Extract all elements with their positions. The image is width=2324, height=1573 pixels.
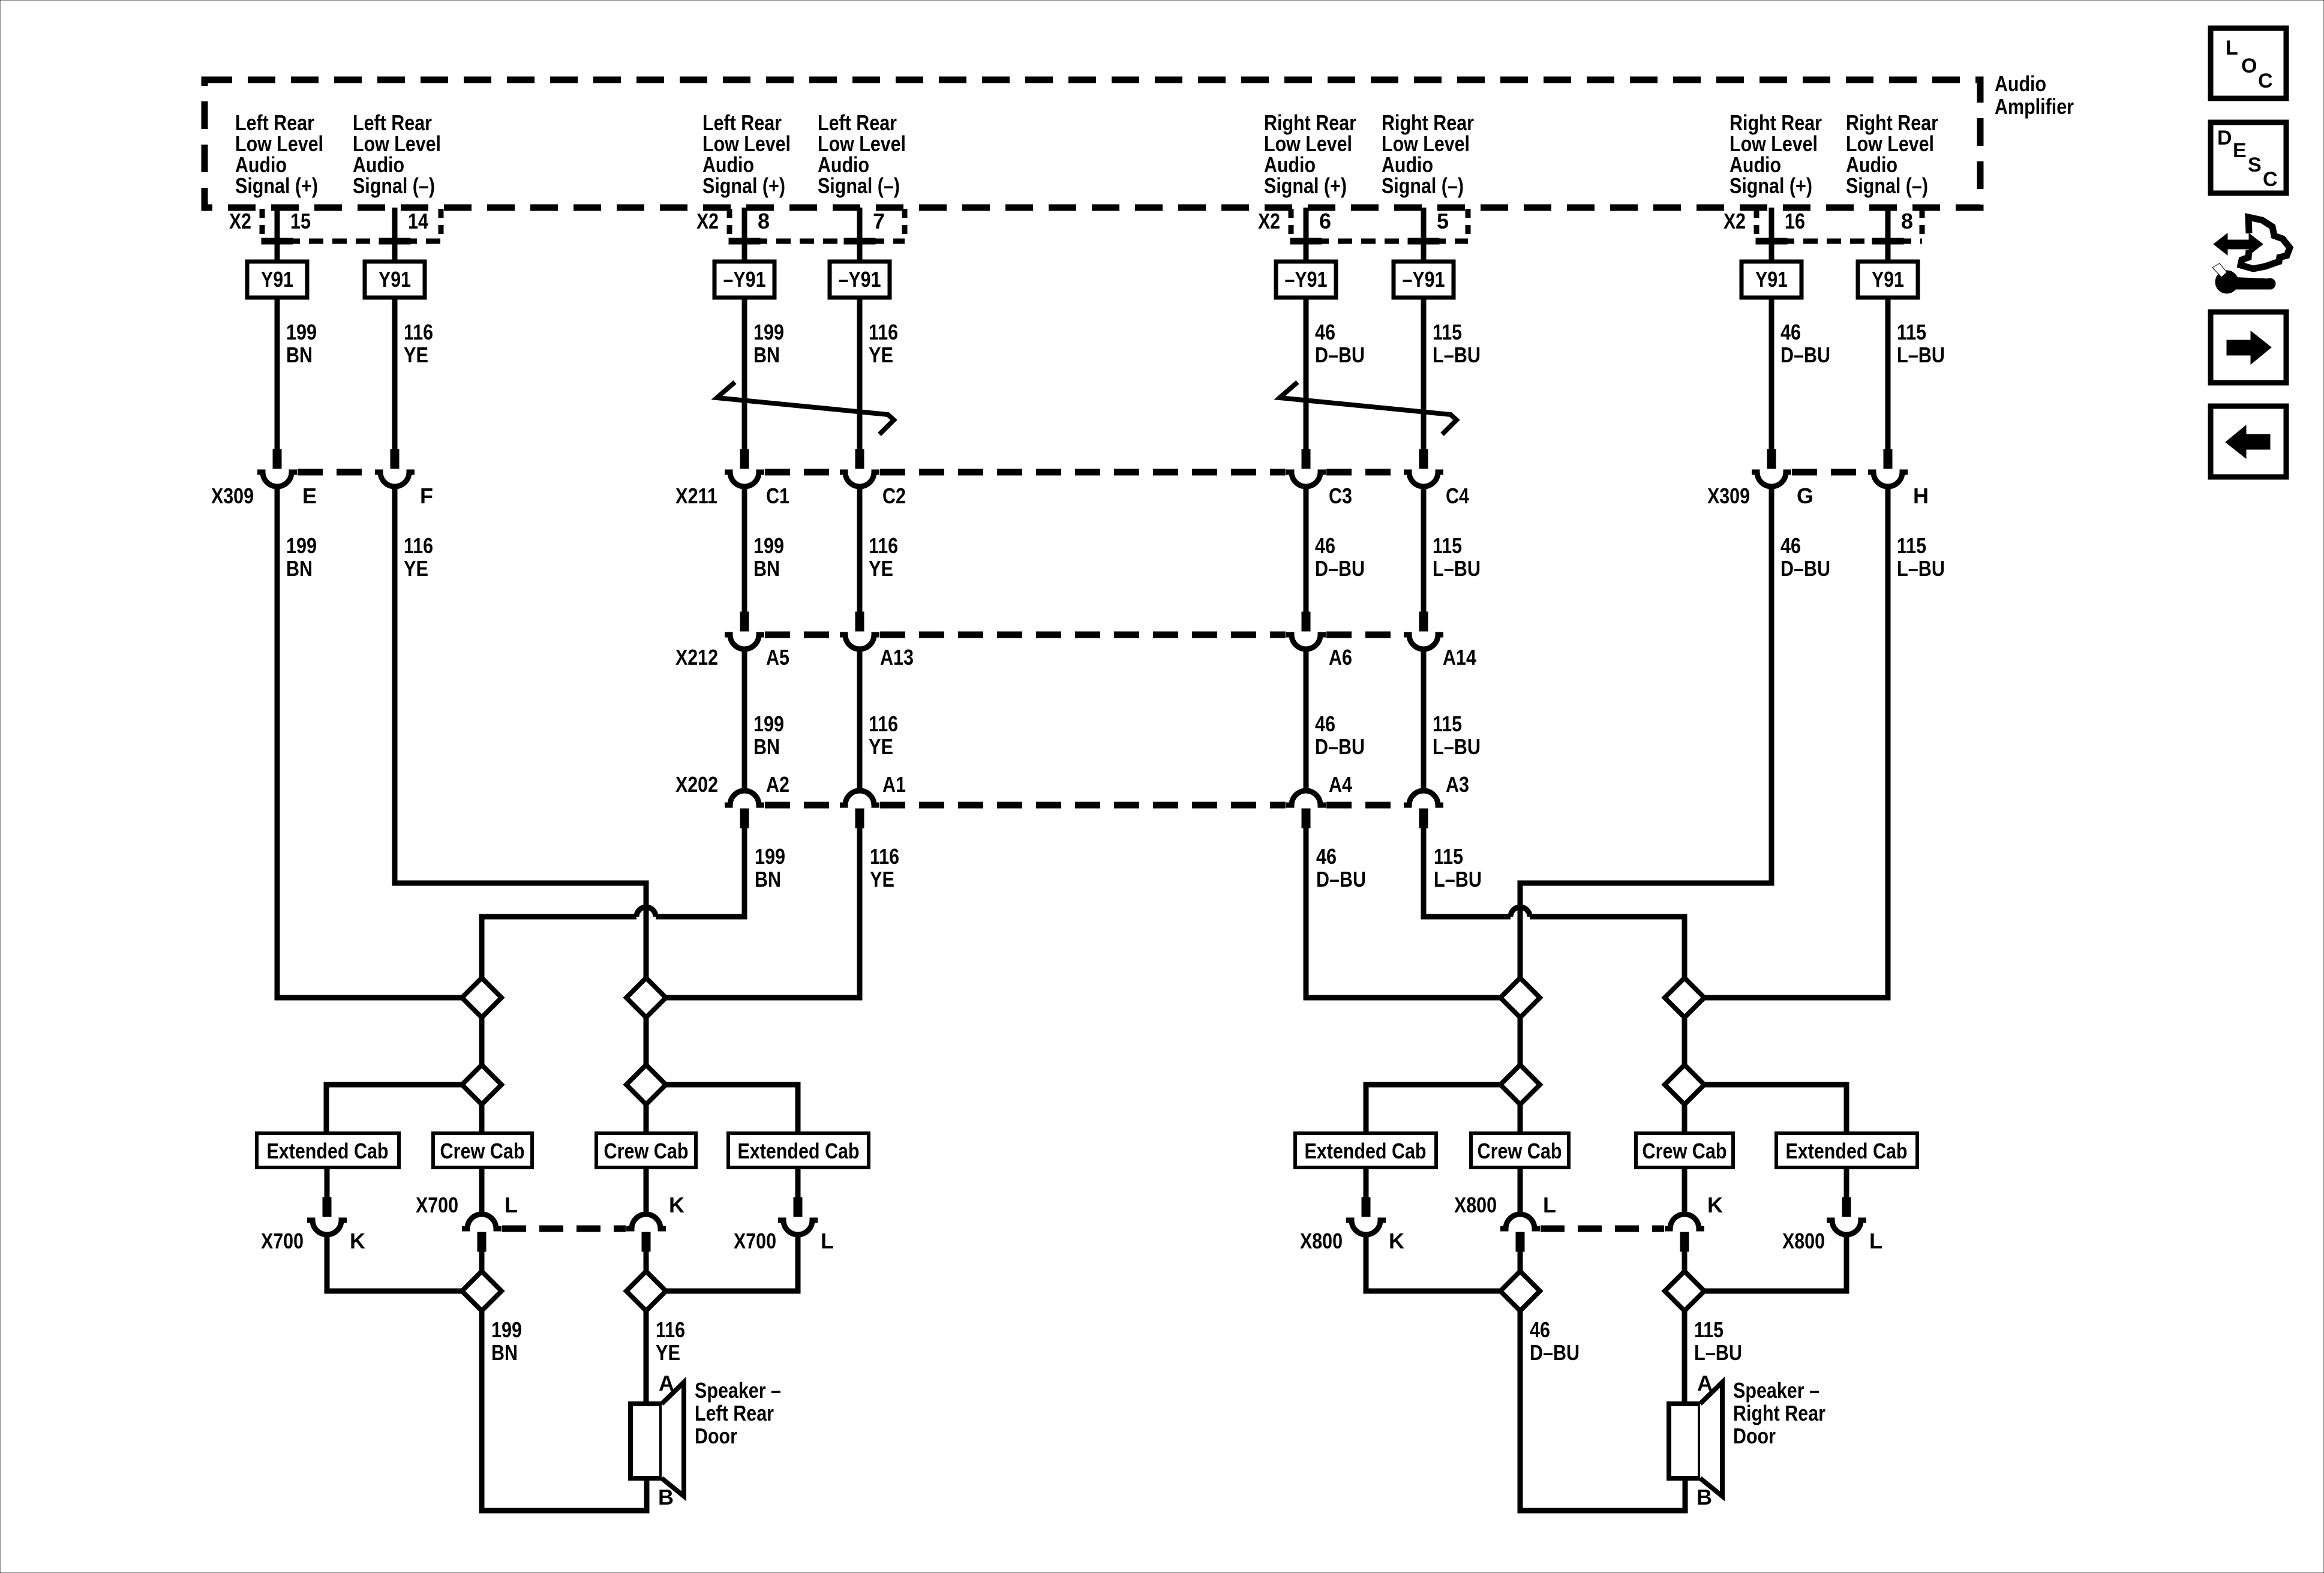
svg-text:A: A (659, 1371, 674, 1395)
svg-text:L: L (821, 1229, 834, 1253)
wire value label 199 BN (row 4, column 3) (755, 844, 785, 891)
svg-text:46: 46 (1780, 533, 1801, 558)
svg-text:7: 7 (873, 209, 885, 233)
svg-text:A5: A5 (766, 645, 789, 670)
svg-text:BN: BN (753, 343, 780, 367)
svg-text:Door: Door (1733, 1424, 1776, 1448)
svg-text:X700: X700 (416, 1193, 458, 1217)
svg-text:46: 46 (1530, 1317, 1550, 1342)
icon: DESC box (2211, 122, 2286, 193)
wire from Extended Cab down to X800 (outer-left) (1364, 1167, 1369, 1197)
connector X700 outer-right terminal (794, 1197, 802, 1217)
wire value label 115 L–BU (row 2, column 6) (1433, 533, 1481, 581)
wire from Crew Cab down to X800 (inner-right) (1682, 1167, 1688, 1214)
wire segment between row A and row B splices at x=803 (479, 1017, 485, 1065)
svg-text:199: 199 (755, 844, 785, 869)
dashed connector line X309 G-H (1792, 469, 1867, 476)
svg-text:BN: BN (753, 734, 780, 759)
wire value label 115 L–BU (row 1, column 6) (1433, 320, 1481, 367)
svg-text:199: 199 (286, 533, 317, 558)
wire segment column 6 between X211 and X212 (1421, 487, 1427, 612)
svg-text:X202: X202 (675, 772, 718, 797)
wire segment below Y91 (1769, 298, 1774, 449)
svg-text:–Y91: –Y91 (839, 267, 881, 292)
svg-text:YE: YE (869, 343, 893, 367)
wire value label 46 D–BU (row 3, column 5) (1315, 712, 1365, 759)
svg-text:K: K (1389, 1229, 1404, 1253)
svg-text:L–BU: L–BU (1433, 734, 1481, 759)
wire from X700 inner-right pin to row-C splice (644, 1251, 649, 1271)
svg-text:D–BU: D–BU (1315, 556, 1365, 581)
svg-text:Door: Door (695, 1424, 737, 1448)
svg-text:L: L (1869, 1229, 1882, 1253)
svg-text:Extended Cab: Extended Cab (1786, 1139, 1908, 1163)
svg-text:46: 46 (1316, 844, 1337, 869)
option box: Extended Cab (257, 1133, 399, 1167)
svg-text:C2: C2 (882, 484, 906, 508)
wire from row-B splice to Crew Cab (right col 46 D-BU) (1518, 1104, 1523, 1133)
svg-text:Y91: Y91 (379, 267, 411, 292)
wire value label 46 D–BU (row 1, column 7) (1780, 320, 1830, 367)
svg-text:L–BU: L–BU (1433, 556, 1481, 581)
speaker - Left rear door symbol (630, 1382, 684, 1496)
svg-text:BN: BN (753, 556, 780, 581)
wire segment column 5 between X212 and X202 (1304, 649, 1309, 791)
svg-text:–Y91: –Y91 (723, 267, 766, 292)
option box: Crew Cab (433, 1133, 532, 1167)
svg-text:X309: X309 (211, 484, 254, 508)
svg-text:115: 115 (1433, 533, 1462, 558)
wire 46 D-BU crew-cab path (col 5) to splice (1306, 825, 1500, 998)
option box: Extended Cab (1295, 1133, 1436, 1167)
svg-text:C3: C3 (1329, 484, 1352, 508)
amplifier pin function label: Left Rear Low Level Audio Signal (–) (column 2) (353, 110, 441, 198)
option box: Extended Cab (728, 1133, 869, 1167)
svg-text:116: 116 (869, 533, 898, 558)
wire value label 115 L–BU (row 4, column 6) (1434, 844, 1482, 891)
wire from row-B splice to Crew Cab (left col 116 YE) (644, 1104, 649, 1133)
svg-text:Signal (–): Signal (–) (1382, 173, 1464, 198)
wire value label 116 YE (row 2, column 4) (869, 533, 898, 581)
wire from row-B splice to Crew Cab (left col 199 BN) (479, 1104, 485, 1133)
splice (row B) 46 D-BU right (1500, 1065, 1540, 1104)
wire segment column 3 between X211 and X212 (742, 487, 747, 612)
svg-text:Crew Cab: Crew Cab (604, 1139, 689, 1163)
wire from row-B splice to Extended Cab (right outer-left) (1366, 1085, 1500, 1133)
option box: Crew Cab (596, 1133, 696, 1167)
svg-text:115: 115 (1433, 712, 1462, 736)
svg-text:O: O (2241, 55, 2257, 77)
svg-text:B: B (658, 1485, 674, 1509)
splice (row C) 115 L-BU right (1665, 1271, 1704, 1311)
wire 46 D-BU extended-cab path (col 7) to splice (1520, 487, 1771, 978)
svg-text:Signal (–): Signal (–) (1846, 173, 1928, 198)
option box: Extended Cab (1776, 1133, 1917, 1167)
wire value label 199 BN (row 1, column 1) (286, 320, 317, 367)
wire from Extended Cab down to X700 (outer-right) (795, 1167, 801, 1197)
svg-text:115: 115 (1897, 320, 1926, 344)
svg-text:H: H (1913, 484, 1929, 508)
speaker - Right rear door symbol (1669, 1382, 1722, 1496)
wire value label 116 YE (row 3, column 4) (869, 712, 898, 759)
splice (row A) 116 YE left (626, 978, 666, 1017)
svg-text:BN: BN (286, 343, 313, 367)
splice (row A) 46 D-BU right (1500, 978, 1540, 1017)
svg-text:Extended Cab: Extended Cab (267, 1139, 389, 1163)
device: Audio Amplifier dashed outline box (205, 80, 1980, 208)
svg-text:A2: A2 (766, 772, 789, 797)
dashed connector line X309 E-F (298, 469, 374, 476)
wire value label 115 L–BU (row 3, column 6) (1433, 712, 1481, 759)
wire segment from amplifier pin 7 down to device box (857, 208, 863, 262)
svg-text:X211: X211 (675, 484, 717, 508)
amplifier pin function label: Left Rear Low Level Audio Signal (–) (column 4) (818, 110, 906, 198)
svg-text:14: 14 (408, 209, 428, 233)
svg-text:X800: X800 (1782, 1229, 1825, 1253)
svg-text:L–BU: L–BU (1433, 343, 1481, 367)
wire segment from amplifier pin 8 down to device box (1885, 208, 1891, 262)
wire value label 116 YE (row 5) (656, 1317, 685, 1365)
dashed connector line X800 L-K (1541, 1226, 1664, 1232)
wire segment from amplifier pin 16 down to device box (1769, 208, 1774, 262)
svg-text:A4: A4 (1329, 772, 1352, 797)
svg-text:5: 5 (1437, 209, 1449, 233)
svg-text:Crew Cab: Crew Cab (1643, 1139, 1727, 1163)
svg-text:199: 199 (491, 1317, 522, 1342)
wire segment below Y91 (392, 298, 398, 449)
wire value label 115 L–BU (row 5) (1694, 1317, 1742, 1365)
svg-text:L–BU: L–BU (1897, 343, 1945, 367)
svg-text:B: B (1697, 1485, 1712, 1509)
svg-text:Speaker –: Speaker – (1733, 1378, 1819, 1403)
svg-text:L: L (1543, 1193, 1556, 1217)
svg-text:X212: X212 (675, 645, 718, 670)
option box: Crew Cab (1636, 1133, 1733, 1167)
svg-text:46: 46 (1315, 712, 1335, 736)
wire value label 46 D–BU (row 4, column 5) (1316, 844, 1366, 891)
svg-text:199: 199 (753, 320, 784, 344)
wire from X700 outer-left to row-C splice (327, 1235, 462, 1291)
connector X800 inner-right terminal (1680, 1232, 1689, 1251)
wire from X800 outer-right to row-C splice (1704, 1235, 1846, 1291)
splice (row C) 46 D-BU right (1500, 1271, 1540, 1311)
connector X800 outer-left terminal (1362, 1197, 1370, 1217)
icon: back arrow box (2211, 406, 2286, 477)
wire value label 46 D–BU (row 5) (1530, 1317, 1580, 1365)
label: Speaker - Left Rear Door (695, 1378, 781, 1448)
amplifier pin function label: Left Rear Low Level Audio Signal (+) (column 3) (702, 110, 791, 198)
wire value label 46 D–BU (row 2, column 5) (1315, 533, 1365, 581)
wire from Crew Cab down to X700 (inner-right) (644, 1167, 649, 1214)
svg-text:8: 8 (1901, 209, 1913, 233)
svg-text:115: 115 (1433, 320, 1462, 344)
amplifier pin function label: Right Rear Low Level Audio Signal (–) (column 8) (1846, 110, 1938, 198)
svg-text:199: 199 (286, 320, 317, 344)
wire value label 199 BN (row 1, column 3) (753, 320, 784, 367)
svg-text:A1: A1 (882, 772, 906, 797)
wire segment below Y91 (275, 298, 280, 449)
svg-text:Extended Cab: Extended Cab (1305, 1139, 1427, 1163)
wire from row-C splice down and across to speaker terminal B (left) (482, 1311, 647, 1511)
wire value label 46 D–BU (row 1, column 5) (1315, 320, 1365, 367)
device Y91 box on column 1 (247, 262, 307, 298)
icon: repair instructions (wrench with double arrow) (2212, 217, 2290, 293)
wire segment below –Y91 (1421, 298, 1427, 449)
svg-text:116: 116 (869, 320, 898, 344)
device Y91 box on column 7 (1742, 262, 1801, 298)
wire from row-C splice down to speaker terminal A (left) (644, 1311, 649, 1404)
wire from X800 inner-right pin to row-C splice (1682, 1251, 1688, 1271)
wire value label 116 YE (row 1, column 4) (869, 320, 898, 367)
wire value label 116 YE (row 1, column 2) (404, 320, 433, 367)
svg-text:Y91: Y91 (261, 267, 293, 292)
svg-text:YE: YE (869, 556, 893, 581)
wire from Extended Cab down to X800 (outer-right) (1844, 1167, 1849, 1197)
svg-text:115: 115 (1694, 1317, 1724, 1342)
option break symbol (right, crossing wires 46 D-BU / 115 L-BU) (1280, 382, 1457, 434)
amplifier pin function label: Right Rear Low Level Audio Signal (+) (column 5) (1264, 110, 1356, 198)
wire 115 L-BU extended-cab path (col 8) to splice (1704, 487, 1888, 998)
amplifier pin function label: Right Rear Low Level Audio Signal (–) (column 6) (1382, 110, 1474, 198)
svg-text:Signal (+): Signal (+) (1264, 173, 1347, 198)
svg-text:D–BU: D–BU (1780, 343, 1830, 367)
wire value label 199 BN (row 2, column 3) (753, 533, 784, 581)
svg-text:X2: X2 (696, 209, 719, 233)
wire 116 YE extended-cab path (col 2) to splice (395, 487, 646, 978)
svg-text:K: K (1707, 1193, 1723, 1217)
label: Audio Amplifier (1995, 71, 2074, 119)
wire segment below –Y91 (857, 298, 863, 449)
dashed connector line X202 A2-A3 (765, 802, 1403, 809)
svg-text:46: 46 (1315, 320, 1335, 344)
connector row: inline connectors X309 / X211 (257, 449, 1908, 487)
splice (row C) 199 BN left (462, 1271, 502, 1311)
wire value label 115 L–BU (row 1, column 8) (1897, 320, 1945, 367)
wire 199 BN crew-cab path (col 3) to splice, hops over col-2 wire (656, 825, 744, 917)
wire value label 199 BN (row 5) (491, 1317, 522, 1365)
svg-text:Audio: Audio (1995, 71, 2046, 96)
wire segment column 6 between X212 and X202 (1421, 649, 1427, 791)
connector X700 inner-left terminal (478, 1232, 486, 1251)
wire segment from amplifier pin 14 down to device box (392, 208, 398, 262)
connector X2 header (pins 15/14) (229, 209, 441, 244)
splice (row B) 115 L-BU right (1665, 1065, 1704, 1104)
wire from row-C splice down and across to speaker terminal B (right) (1520, 1311, 1685, 1511)
wire value label 46 D–BU (row 2, column 7) (1780, 533, 1830, 581)
svg-text:X309: X309 (1707, 484, 1750, 508)
svg-text:D–BU: D–BU (1530, 1340, 1580, 1365)
svg-text:Y91: Y91 (1872, 267, 1904, 292)
wire segment from amplifier pin 5 down to device box (1421, 208, 1427, 262)
svg-text:116: 116 (404, 533, 433, 558)
svg-text:116: 116 (656, 1317, 685, 1342)
wire from row-C splice down to speaker terminal A (right) (1682, 1311, 1688, 1404)
svg-text:X2: X2 (1724, 209, 1746, 233)
svg-text:A: A (1697, 1371, 1713, 1395)
svg-text:115: 115 (1897, 533, 1926, 558)
svg-text:BN: BN (755, 867, 781, 891)
label: Speaker - Right Rear Door (1733, 1378, 1825, 1448)
wire segment column 5 between X211 and X212 (1304, 487, 1309, 612)
wire segment between row A and row B splices at x=2534 (1518, 1017, 1523, 1065)
svg-text:C1: C1 (766, 484, 789, 508)
svg-text:A14: A14 (1443, 645, 1476, 670)
svg-text:115: 115 (1434, 844, 1463, 869)
wire segment column 3 between X212 and X202 (742, 649, 747, 791)
splice (row C) 116 YE left (626, 1271, 666, 1311)
svg-text:F: F (420, 484, 433, 508)
option break symbol (left, crossing wires 199 BN / 116 YE) (717, 382, 894, 434)
svg-text:16: 16 (1785, 209, 1805, 233)
svg-text:D: D (2217, 127, 2232, 149)
svg-text:Crew Cab: Crew Cab (440, 1139, 525, 1163)
svg-text:Signal (+): Signal (+) (1730, 173, 1812, 198)
connector row: inline connector X202 (725, 791, 1443, 828)
svg-text:L–BU: L–BU (1434, 867, 1482, 891)
svg-text:Crew Cab: Crew Cab (1478, 1139, 1562, 1163)
svg-text:YE: YE (869, 734, 893, 759)
svg-text:L: L (505, 1193, 518, 1217)
wire segment from amplifier pin 6 down to device box (1304, 208, 1309, 262)
svg-text:K: K (350, 1229, 365, 1253)
svg-text:A6: A6 (1329, 645, 1352, 670)
svg-text:Speaker –: Speaker – (695, 1378, 781, 1403)
device –Y91 box on column 6 (1394, 262, 1454, 298)
svg-text:Left Rear: Left Rear (695, 1401, 774, 1425)
device Y91 box on column 8 (1858, 262, 1918, 298)
connector X800 inner-left terminal (1516, 1232, 1524, 1251)
splice (row B) 199 BN left (462, 1065, 502, 1104)
svg-text:199: 199 (753, 533, 784, 558)
svg-text:L–BU: L–BU (1694, 1340, 1742, 1365)
svg-text:E: E (302, 484, 317, 508)
hop arc where 115 L-BU crosses 46 D-BU (1511, 907, 1530, 917)
svg-text:15: 15 (290, 209, 311, 233)
device –Y91 box on column 4 (830, 262, 890, 298)
wire from Crew Cab down to X800 (inner-left) (1518, 1167, 1523, 1214)
svg-text:X700: X700 (734, 1229, 776, 1253)
option box: Crew Cab (1471, 1133, 1569, 1167)
connector X700 inner-right terminal (642, 1232, 650, 1251)
svg-text:BN: BN (286, 556, 313, 581)
splice (row B) 116 YE left (626, 1065, 666, 1104)
splice (row A) 115 L-BU right (1665, 978, 1704, 1017)
svg-text:G: G (1797, 484, 1813, 508)
amplifier pin function label: Left Rear Low Level Audio Signal (+) (column 1) (235, 110, 323, 198)
wire segment below –Y91 (1304, 298, 1309, 449)
svg-text:A3: A3 (1446, 772, 1469, 797)
connector X2 header (pins 8/7) (696, 209, 905, 244)
wire value label 116 YE (row 4, column 4) (870, 844, 899, 891)
svg-text:YE: YE (656, 1340, 680, 1365)
svg-text:116: 116 (404, 320, 433, 344)
svg-text:116: 116 (870, 844, 899, 869)
svg-text:Signal (+): Signal (+) (235, 173, 318, 198)
splice (row A) 199 BN left (462, 978, 502, 1017)
svg-text:D–BU: D–BU (1780, 556, 1830, 581)
svg-text:Signal (–): Signal (–) (353, 173, 435, 198)
connector X800 outer-right terminal (1842, 1197, 1851, 1217)
svg-text:L–BU: L–BU (1897, 556, 1945, 581)
svg-text:C4: C4 (1446, 484, 1469, 508)
wire 199 BN extended-cab path (col 1) to splice (277, 487, 462, 998)
svg-text:YE: YE (404, 343, 428, 367)
dashed connector line X211 C1-C4 (765, 469, 1403, 476)
wire from row-B splice to Extended Cab (right outer-right) (1704, 1085, 1846, 1133)
svg-text:X800: X800 (1454, 1193, 1497, 1217)
wire from X700 outer-right to row-C splice (666, 1235, 798, 1291)
svg-text:K: K (669, 1193, 684, 1217)
connector row: inline connector X212 (725, 612, 1443, 649)
svg-text:X800: X800 (1300, 1229, 1343, 1253)
wire segment between row A and row B splices at x=1077 (644, 1017, 649, 1065)
dashed connector line X212 A5-A14 (765, 632, 1403, 638)
wire from X700 inner-left pin to row-C splice (479, 1251, 485, 1271)
svg-text:Signal (+): Signal (+) (702, 173, 785, 198)
dashed connector line X700 L-K (502, 1226, 626, 1232)
svg-text:Extended Cab: Extended Cab (738, 1139, 860, 1163)
wire value label 199 BN (row 3, column 3) (753, 712, 784, 759)
svg-text:YE: YE (404, 556, 428, 581)
svg-text:–Y91: –Y91 (1403, 267, 1445, 292)
svg-text:E: E (2233, 139, 2247, 162)
svg-text:C: C (2263, 168, 2278, 191)
amplifier pin function label: Right Rear Low Level Audio Signal (+) (column 7) (1730, 110, 1822, 198)
svg-text:Right Rear: Right Rear (1733, 1401, 1825, 1425)
icon: LOC box (2211, 28, 2286, 98)
svg-text:C: C (2258, 70, 2273, 92)
device –Y91 box on column 5 (1276, 262, 1336, 298)
svg-text:8: 8 (758, 209, 770, 233)
wire segment from amplifier pin 15 down to device box (275, 208, 280, 262)
wire from Extended Cab down to X700 (outer-left) (325, 1167, 330, 1197)
wire segment column 4 between X211 and X212 (857, 487, 863, 612)
svg-text:Y91: Y91 (1755, 267, 1788, 292)
hop arc where 199 BN crosses 116 YE (636, 907, 656, 917)
wire 115 L-BU crew-cab path (col 6) to splice, hops over col-7 wire (1424, 825, 1511, 917)
svg-text:X2: X2 (1258, 209, 1280, 233)
svg-text:46: 46 (1315, 533, 1335, 558)
svg-text:X700: X700 (261, 1229, 304, 1253)
svg-text:L: L (2226, 37, 2238, 59)
connector X2 header (pins 16/8) (1724, 209, 1922, 244)
svg-text:D–BU: D–BU (1315, 734, 1365, 759)
svg-text:Signal (–): Signal (–) (818, 173, 900, 198)
svg-text:6: 6 (1319, 209, 1331, 233)
wire from row-B splice to Crew Cab (right col 115 L-BU) (1682, 1104, 1688, 1133)
wire from row-B splice to Extended Cab (left inner-right outer) (666, 1085, 798, 1133)
connector X700 outer-left terminal (323, 1197, 331, 1217)
svg-text:46: 46 (1780, 320, 1801, 344)
connector X2 header (pins 6/5) (1258, 209, 1468, 244)
device –Y91 box on column 3 (714, 262, 774, 298)
svg-text:X2: X2 (229, 209, 251, 233)
wire value label 115 L–BU (row 2, column 8) (1897, 533, 1945, 581)
svg-text:199: 199 (753, 712, 784, 736)
device Y91 box on column 2 (365, 262, 425, 298)
wire from X800 inner-left pin to row-C splice (1518, 1251, 1523, 1271)
svg-text:Amplifier: Amplifier (1995, 94, 2074, 119)
svg-text:D–BU: D–BU (1315, 343, 1365, 367)
wire segment column 4 between X212 and X202 (857, 649, 863, 791)
svg-text:116: 116 (869, 712, 898, 736)
wire segment below Y91 (1885, 298, 1891, 449)
wire segment between row A and row B splices at x=2808 (1682, 1017, 1688, 1065)
wire 116 YE crew-cab path (col 4) to splice (666, 825, 860, 998)
svg-text:A13: A13 (880, 645, 914, 670)
wire from row-B splice to Extended Cab (left outer) (326, 1085, 462, 1133)
svg-text:D–BU: D–BU (1316, 867, 1366, 891)
